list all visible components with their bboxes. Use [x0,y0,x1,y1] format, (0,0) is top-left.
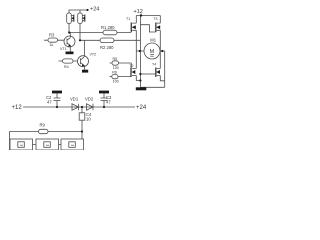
svg-text:+12: +12 [134,9,143,15]
svg-text:R1 280: R1 280 [101,25,115,30]
svg-text:+24: +24 [90,7,99,13]
svg-text:100: 100 [113,66,119,70]
svg-text:T2: T2 [129,64,133,68]
svg-text:M: M [150,49,155,55]
svg-text:VT1: VT1 [60,47,67,51]
svg-text:R2 280: R2 280 [100,45,114,50]
svg-text:R6: R6 [112,71,117,75]
svg-text:VD2: VD2 [85,97,94,102]
svg-text:T1: T1 [126,17,130,21]
svg-text:47: 47 [47,100,52,105]
svg-text:VD1: VD1 [70,97,79,102]
svg-text:M1: M1 [150,38,156,43]
svg-text:+24: +24 [136,105,147,111]
svg-text:R9: R9 [40,123,46,128]
svg-text:47: 47 [106,100,111,105]
svg-text:10: 10 [86,117,91,122]
svg-text:R3: R3 [49,33,55,38]
svg-text:R5: R5 [113,57,118,61]
svg-text:1k: 1k [50,43,54,47]
svg-text:T3: T3 [153,17,157,21]
svg-text:R4: R4 [64,65,69,69]
svg-text:100: 100 [113,79,119,83]
svg-text:VT2: VT2 [90,53,97,57]
svg-text:+12: +12 [12,105,23,111]
svg-text:T4: T4 [152,62,156,66]
